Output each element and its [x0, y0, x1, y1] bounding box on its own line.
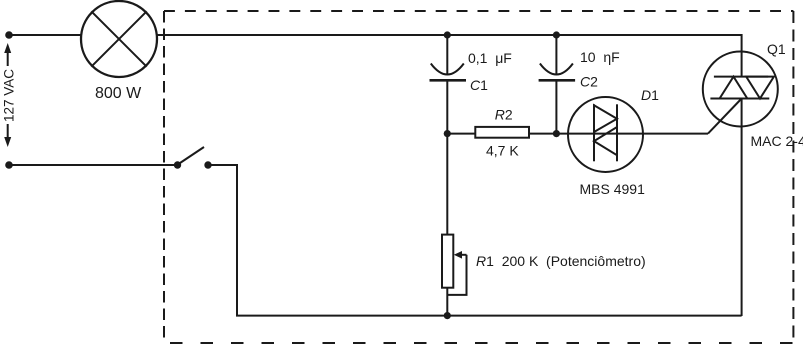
svg-text:R1 200 K (Potenciômetro): R1 200 K (Potenciômetro) [476, 253, 646, 269]
svg-text:MAC 2-4: MAC 2-4 [751, 133, 803, 149]
svg-text:127 VAC: 127 VAC [2, 69, 17, 122]
svg-text:0,1 μF: 0,1 μF [468, 50, 512, 66]
svg-text:C2: C2 [580, 74, 598, 90]
svg-text:C1: C1 [470, 77, 488, 93]
svg-text:D1: D1 [641, 87, 659, 103]
svg-text:MBS 4991: MBS 4991 [580, 181, 646, 197]
svg-text:800 W: 800 W [95, 85, 142, 102]
svg-text:4,7 K: 4,7 K [486, 143, 519, 159]
svg-text:R2: R2 [495, 107, 513, 123]
svg-text:10 ηF: 10 ηF [580, 49, 620, 65]
svg-text:Q1: Q1 [767, 41, 786, 57]
